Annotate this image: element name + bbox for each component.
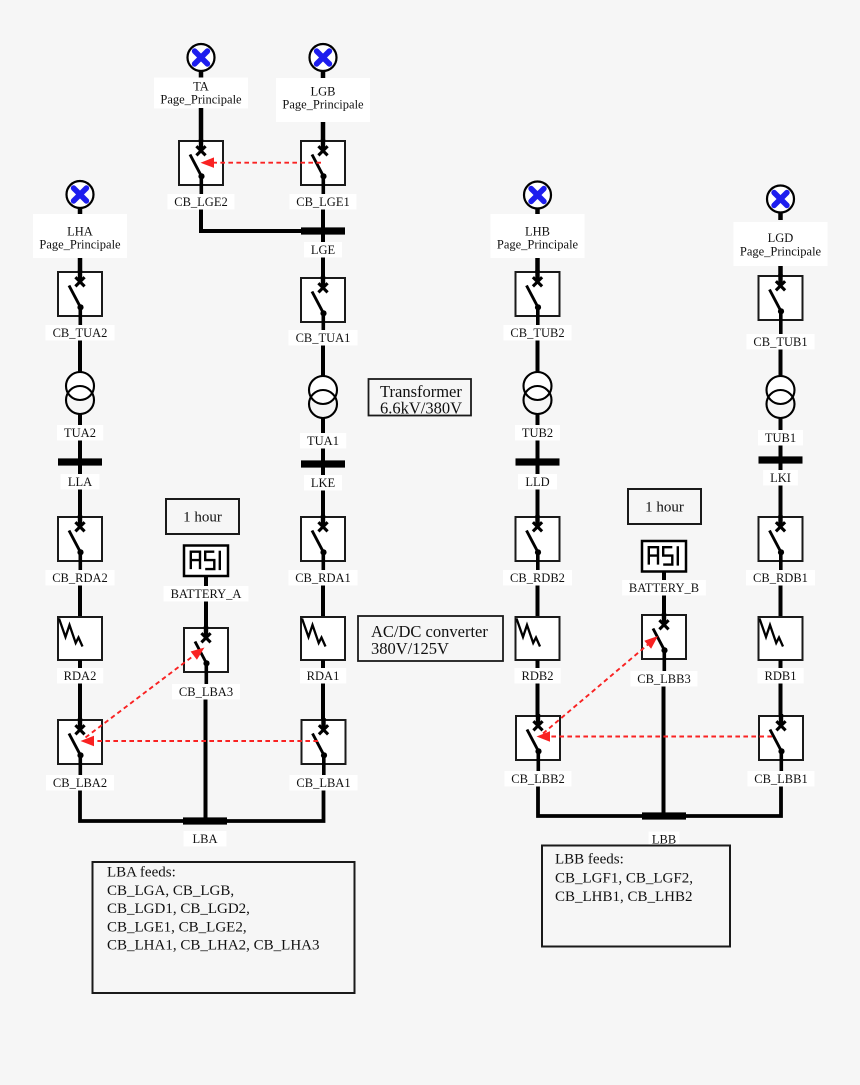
interlock arrow CB_LBB2 to CB_LBB3	[543, 636, 658, 734]
wire TUB2 label to LLD	[536, 441, 540, 461]
label CB_LGE1	[289, 194, 356, 210]
wire RDA2 to CB_LBA2	[78, 684, 82, 730]
circuit breaker CB_LGE2	[179, 139, 223, 195]
transformer TUB1	[767, 376, 795, 418]
circuit breaker CB_RDB1	[759, 515, 803, 571]
svg-text:CB_TUB2: CB_TUB2	[510, 326, 564, 340]
svg-text:LKE: LKE	[311, 476, 336, 490]
svg-text:CB_LGE1, CB_LGE2,: CB_LGE1, CB_LGE2,	[107, 919, 247, 935]
svg-text:LLA: LLA	[68, 475, 92, 489]
note LBA feeds list	[93, 862, 355, 993]
svg-text:TUB1: TUB1	[765, 431, 796, 445]
svg-text:RDB2: RDB2	[522, 669, 554, 683]
wire LKI to CB_RDB1	[779, 486, 783, 527]
node TA (Page_Principale)	[154, 78, 248, 109]
svg-text:CB_LGD1, CB_LGD2,: CB_LGD1, CB_LGD2,	[107, 901, 250, 917]
busbar LGE	[301, 227, 345, 234]
AC/DC rectifier RDB2	[516, 617, 560, 660]
svg-text:Page_Principale: Page_Principale	[497, 238, 579, 252]
busbar LKI	[759, 456, 803, 463]
wire RDB2 to label	[536, 660, 540, 669]
circuit breaker CB_LBB2	[516, 714, 560, 772]
label LBB	[649, 832, 680, 848]
svg-text:CB_LBA2: CB_LBA2	[53, 776, 107, 790]
wire BATTERY_B to CB_LBB3	[662, 596, 666, 625]
svg-text:CB_LHB1, CB_LHB2: CB_LHB1, CB_LHB2	[555, 889, 693, 905]
wire TUB1 label to LKI	[779, 446, 783, 459]
circuit breaker CB_TUA1	[301, 276, 345, 331]
interlock arrow CB_LBA1 to CB_LBA2	[81, 736, 319, 746]
wire CB_LBA1 to LBA busbar	[226, 791, 324, 822]
svg-text:LBA: LBA	[193, 832, 218, 846]
label RDA2	[57, 668, 103, 684]
wire TA label to CB_LGE2	[199, 108, 204, 150]
wire CB_RDB2 to RDB2	[536, 586, 540, 620]
circuit breaker CB_RDA1	[301, 515, 345, 571]
svg-text:CB_LBA1: CB_LBA1	[296, 776, 350, 790]
svg-text:CB_RDA2: CB_RDA2	[52, 571, 108, 585]
source LGD (page connector)	[767, 186, 794, 221]
svg-text:TUA2: TUA2	[64, 426, 96, 440]
AC/DC rectifier RDA2	[58, 617, 102, 660]
circuit breaker CB_RDA2	[58, 515, 102, 571]
label RDA1	[300, 668, 346, 684]
label CB_LBB3	[630, 671, 697, 687]
wire CB_LGE1 to LGE busbar	[321, 210, 325, 232]
svg-text:TA: TA	[193, 80, 209, 94]
wire TUA1 label to LKE	[321, 449, 325, 463]
source TA (page connector)	[188, 44, 215, 79]
label BATTERY_B	[622, 580, 706, 596]
wire TUB1 to label	[779, 418, 783, 431]
wire RDB1 to label	[779, 660, 783, 669]
interlock arrow CB_LGE1 to CB_LGE2	[201, 157, 322, 168]
svg-text:CB_TUA2: CB_TUA2	[53, 326, 108, 340]
wire ASI to BATTERY_A label	[204, 576, 208, 587]
label LGE	[304, 242, 342, 258]
wire RDB1 to CB_LBB1	[779, 684, 783, 726]
label CB_RDA1	[288, 570, 357, 586]
label TUA2	[57, 425, 103, 441]
wire LGE to CB_TUA1	[321, 258, 325, 288]
wire TUB2 to label	[536, 414, 540, 426]
source LGB (page connector)	[310, 44, 337, 79]
wire CB_TUA1 to TUA1	[321, 346, 325, 379]
wire CB_LBB3 to LBB busbar	[662, 687, 666, 815]
wire TUA2 label to LLA	[78, 441, 82, 461]
circuit breaker CB_TUB2	[516, 270, 560, 326]
wire BATTERY_A to CB_LBA3	[204, 602, 208, 638]
source LHB (page connector)	[524, 182, 551, 217]
label CB_LBA2	[46, 775, 114, 791]
label CB_LGE2	[167, 194, 234, 210]
wire CB_LBB1 to LBB busbar	[685, 787, 781, 817]
svg-text:CB_LGF1, CB_LGF2,: CB_LGF1, CB_LGF2,	[555, 871, 693, 887]
label CB_TUA1	[288, 330, 357, 346]
wire CB_LBB2 to LBB busbar	[538, 787, 643, 817]
wire CB_LGE2 down	[199, 210, 203, 232]
svg-text:6.6kV/380V: 6.6kV/380V	[380, 399, 462, 418]
note Transformer 6.6kV/380V	[369, 379, 472, 418]
label LLA	[61, 474, 100, 490]
transformer TUA1	[309, 376, 337, 418]
wire CB_RDA2 to RDA2	[78, 586, 82, 620]
wire LLD to CB_RDB2	[536, 490, 540, 527]
svg-text:CB_LBB3: CB_LBB3	[637, 672, 691, 686]
circuit breaker CB_LBA3	[184, 626, 228, 685]
svg-text:CB_RDA1: CB_RDA1	[295, 571, 351, 585]
label LKE	[304, 475, 342, 491]
svg-text:LGB: LGB	[311, 85, 336, 99]
wire CB_RDB1 to RDB1	[779, 586, 783, 620]
svg-text:CB_RDB1: CB_RDB1	[753, 571, 808, 585]
wire RDB2 to CB_LBB2	[536, 684, 540, 726]
source LHA (page connector)	[67, 181, 94, 216]
wire LHB label to CB_TUB2	[535, 258, 540, 281]
circuit breaker CB_LGE1	[301, 139, 345, 195]
svg-text:1 hour: 1 hour	[183, 510, 222, 526]
svg-text:LBA feeds:: LBA feeds:	[107, 865, 176, 881]
busbar LBB	[642, 812, 686, 819]
label CB_LBB1	[747, 771, 814, 787]
svg-text:CB_LGE1: CB_LGE1	[296, 195, 349, 209]
wire TUA1 to label	[321, 418, 325, 434]
circuit breaker CB_LBB3	[642, 613, 686, 672]
svg-text:RDA2: RDA2	[64, 669, 97, 683]
label CB_LBA1	[289, 775, 357, 791]
label BATTERY_A	[164, 586, 249, 602]
note LBB feeds list	[542, 846, 730, 947]
note 1 hour (battery A autonomy)	[166, 499, 239, 534]
svg-text:BATTERY_B: BATTERY_B	[629, 581, 699, 595]
svg-text:LGE: LGE	[311, 243, 336, 257]
label CB_TUA2	[45, 325, 114, 341]
circuit breaker CB_TUA2	[58, 270, 102, 326]
svg-text:LBB: LBB	[652, 832, 676, 846]
transformer TUA2	[66, 372, 94, 414]
label CB_RDA2	[45, 570, 114, 586]
svg-text:LBB feeds:: LBB feeds:	[555, 852, 624, 868]
svg-text:CB_LBB1: CB_LBB1	[754, 772, 808, 786]
svg-text:TUA1: TUA1	[307, 434, 339, 448]
wire LLA to label	[78, 466, 82, 476]
interlock arrow CB_LBA2 to CB_LBA3	[86, 648, 205, 738]
label TUB1	[758, 430, 803, 446]
wire CB_TUA2 to TUA2	[78, 341, 82, 375]
svg-text:BATTERY_A: BATTERY_A	[171, 587, 242, 601]
label CB_LBB2	[504, 771, 571, 787]
svg-text:CB_RDB2: CB_RDB2	[510, 571, 565, 585]
label CB_TUB2	[503, 325, 571, 341]
svg-text:TUB2: TUB2	[522, 426, 553, 440]
svg-text:Page_Principale: Page_Principale	[740, 245, 822, 259]
wire LLD to label	[536, 466, 540, 476]
battery UPS unit BATTERY_B (ASI)	[642, 541, 686, 572]
svg-text:CB_LBA3: CB_LBA3	[179, 685, 233, 699]
wire CB_LBA3 to LBA busbar	[204, 700, 208, 820]
AC/DC rectifier RDA1	[301, 617, 345, 660]
wire RDA1 to CB_LBA1	[321, 684, 325, 730]
label LKI	[763, 470, 798, 486]
wire LHA label to CB_TUA2	[78, 258, 83, 281]
circuit breaker CB_LBA1	[302, 718, 346, 776]
wire LLA to CB_RDA2	[78, 490, 82, 527]
wire LGE busbar to label	[321, 234, 325, 243]
wire LGB label to CB_LGE1	[321, 122, 326, 150]
interlock arrow CB_LBB1 to CB_LBB2	[537, 731, 773, 742]
svg-text:CB_LGE2: CB_LGE2	[174, 195, 227, 209]
node LGB (Page_Principale)	[276, 78, 370, 122]
wire LKI to label	[779, 464, 783, 472]
battery UPS unit BATTERY_A (ASI)	[184, 546, 228, 577]
wire TUA2 to label	[78, 414, 82, 426]
wire RDA1 to label	[321, 660, 325, 669]
svg-text:380V/125V: 380V/125V	[371, 639, 449, 658]
svg-text:RDA1: RDA1	[307, 669, 340, 683]
svg-text:LHB: LHB	[525, 225, 550, 239]
svg-text:1 hour: 1 hour	[645, 500, 684, 516]
svg-text:Page_Principale: Page_Principale	[39, 238, 121, 252]
label CB_RDB2	[503, 570, 572, 586]
svg-text:CB_TUA1: CB_TUA1	[296, 331, 351, 345]
label CB_TUB1	[746, 334, 814, 350]
note 1 hour (battery B autonomy)	[628, 489, 701, 524]
wire ASI to BATTERY_B label	[662, 572, 666, 582]
circuit breaker CB_LBA2	[58, 718, 102, 776]
svg-text:Page_Principale: Page_Principale	[282, 98, 364, 112]
wire LKE to label	[321, 468, 325, 477]
label TUB2	[515, 425, 560, 441]
wire CB_TUB1 to TUB1	[779, 350, 783, 379]
svg-text:LKI: LKI	[770, 471, 791, 485]
svg-text:LGD: LGD	[768, 231, 794, 245]
wire CB_RDA1 to RDA1	[321, 586, 325, 620]
node LGD (Page_Principale)	[733, 222, 827, 266]
label CB_RDB1	[746, 570, 815, 586]
label RDB2	[514, 668, 560, 684]
node LHA (Page_Principale)	[33, 214, 127, 258]
wire LKE to CB_RDA1	[321, 491, 325, 527]
busbar LLA	[58, 458, 102, 465]
svg-text:Page_Principale: Page_Principale	[160, 93, 242, 107]
svg-text:LHA: LHA	[67, 225, 93, 239]
busbar LKE	[301, 460, 345, 467]
wire CB_LGE2 to LGE busbar	[199, 229, 321, 233]
busbar LLD	[516, 458, 560, 465]
busbar LBA	[183, 817, 227, 824]
AC/DC rectifier RDB1	[759, 617, 803, 660]
label RDB1	[757, 668, 803, 684]
wire CB_LBA2 to LBA busbar	[80, 791, 184, 822]
label LLD	[518, 474, 557, 490]
wire RDA2 to label	[78, 660, 82, 669]
svg-text:RDB1: RDB1	[765, 669, 797, 683]
svg-text:CB_LGA, CB_LGB,: CB_LGA, CB_LGB,	[107, 883, 234, 899]
svg-text:CB_TUB1: CB_TUB1	[753, 335, 807, 349]
wire LGD label to CB_TUB1	[778, 266, 783, 285]
wire CB_TUB2 to TUB2	[536, 341, 540, 375]
circuit breaker CB_RDB2	[516, 515, 560, 571]
circuit breaker CB_TUB1	[759, 274, 803, 335]
svg-text:CB_LBB2: CB_LBB2	[511, 772, 565, 786]
label TUA1	[300, 433, 346, 449]
note AC/DC converter 380V/125V	[358, 616, 503, 661]
label LBA	[184, 831, 227, 847]
node LHB (Page_Principale)	[490, 214, 584, 258]
label CB_LBA3	[172, 684, 240, 700]
transformer TUB2	[524, 372, 552, 414]
circuit breaker CB_LBB1	[759, 714, 803, 772]
svg-text:LLD: LLD	[525, 475, 549, 489]
svg-text:CB_LHA1, CB_LHA2, CB_LHA3: CB_LHA1, CB_LHA2, CB_LHA3	[107, 938, 320, 954]
